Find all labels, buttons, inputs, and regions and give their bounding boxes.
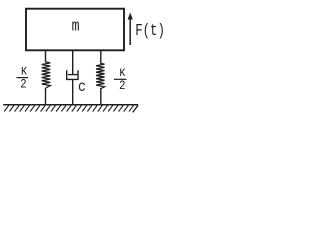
- spring k/2 right: [96, 63, 104, 89]
- label k/2 left: [17, 64, 29, 92]
- svg-text:c: c: [78, 79, 86, 96]
- label k/2 right: [114, 65, 127, 93]
- wire stub / piston rod of damper: [72, 51, 74, 75]
- svg-text:2: 2: [20, 76, 26, 91]
- ground line: [3, 104, 138, 106]
- mass M body: [26, 9, 124, 51]
- damper c piston plate: [68, 74, 77, 76]
- force arrow F(t): [128, 13, 133, 46]
- spring k/2 left: [42, 62, 51, 88]
- wire left spring to ground: [45, 88, 47, 105]
- ground hatching: [4, 105, 138, 112]
- svg-text:F(t): F(t): [135, 23, 165, 41]
- wire damper to ground: [72, 79, 74, 104]
- wire right spring to ground: [100, 89, 102, 105]
- wire stub to right spring: [100, 51, 102, 64]
- wire stub to left spring: [45, 51, 47, 63]
- svg-text:2: 2: [119, 78, 125, 93]
- damper c cylinder cup: [67, 70, 78, 79]
- svg-text:m: m: [72, 16, 80, 36]
